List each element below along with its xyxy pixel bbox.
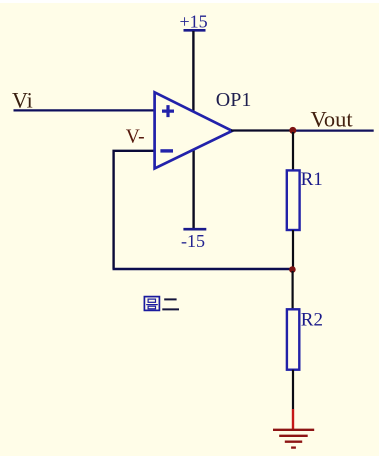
power rail +15 bar [184, 29, 206, 32]
wire op-amp bottom pin to -15 [192, 150, 194, 229]
svg-text:Vout: Vout [311, 106, 354, 131]
wire op-amp output to junction [231, 129, 293, 131]
ground symbol [273, 430, 314, 448]
junction dot at Vout node [289, 127, 296, 134]
wire Vi input [14, 109, 157, 111]
svg-text:R1: R1 [301, 169, 323, 190]
svg-text:Vi: Vi [12, 88, 33, 113]
wire R1 bottom to feedback junction [292, 230, 294, 268]
wire junction to Vout right edge [293, 130, 374, 132]
resistor R1 body [287, 170, 300, 230]
wire +15 to op-amp V+ pin [192, 31, 194, 111]
label figure caption 圖二 (drawn glyphs) [144, 297, 159, 311]
power rail -15 bar [183, 228, 206, 231]
wire feedback junction down to R2 [292, 271, 294, 310]
wire V- input segment [114, 151, 156, 269]
resistor R2 body [287, 309, 299, 369]
svg-text:OP1: OP1 [216, 89, 252, 111]
svg-text:-15: -15 [181, 231, 205, 251]
svg-text:+15: +15 [180, 12, 208, 32]
wire Vout junction down to R1 [292, 132, 294, 171]
wire R2 bottom toward ground (black part) [292, 370, 294, 409]
wire feedback bottom segment [113, 268, 293, 270]
op-amp plus input marker [162, 105, 174, 117]
op-amp U1 triangle [155, 92, 233, 168]
op-amp minus input marker [160, 149, 173, 152]
svg-text:R2: R2 [301, 310, 323, 331]
wire to ground (red part) [292, 409, 294, 429]
svg-text:V-: V- [126, 126, 145, 147]
junction dot at feedback node [289, 266, 296, 273]
